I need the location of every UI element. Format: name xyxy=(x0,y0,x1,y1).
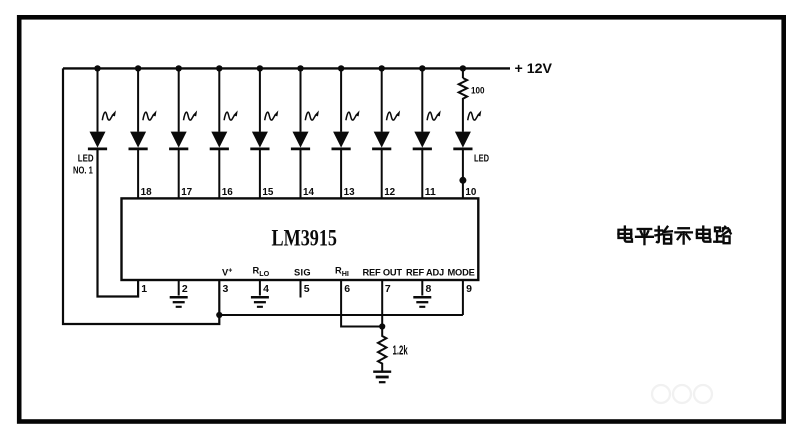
node rail junction 4 xyxy=(216,65,222,71)
ground (R2) xyxy=(373,372,391,383)
node rail junction 10 xyxy=(460,65,466,71)
wire xyxy=(340,149,342,198)
wire xyxy=(178,149,180,198)
wire xyxy=(300,149,302,198)
wire LED1 cathode to pin 1 xyxy=(98,149,139,297)
svg-text:2: 2 xyxy=(182,283,188,295)
svg-text:14: 14 xyxy=(303,186,314,198)
node pin3 junction xyxy=(216,312,222,318)
LED D9 light arrow xyxy=(427,110,441,120)
node rail junction 3 xyxy=(176,65,182,71)
watermark xyxy=(652,385,712,403)
svg-text:13: 13 xyxy=(344,186,355,198)
wire pin 2 stub xyxy=(178,281,180,296)
wire: pin3 to pin9 (MODE to V+) xyxy=(219,314,463,316)
svg-text:REF ADJ: REF ADJ xyxy=(406,268,444,278)
svg-text:LED: LED xyxy=(78,154,94,165)
wire: left vertical V+ loop xyxy=(63,68,219,324)
node pin10 junction xyxy=(459,177,466,184)
resistor R2 1.2k xyxy=(378,330,386,371)
wire: pin6 RHI loop xyxy=(341,281,382,327)
wire: pin7 REF OUT down xyxy=(381,281,383,330)
LED D7 light arrow xyxy=(346,110,360,120)
wire pin 5 stub xyxy=(300,281,302,298)
wire xyxy=(259,68,261,131)
LED D3 xyxy=(171,132,187,148)
wire xyxy=(178,68,180,131)
wire xyxy=(421,68,423,131)
LED D8 xyxy=(374,132,390,148)
LED D5 xyxy=(252,132,268,148)
svg-text:7: 7 xyxy=(385,283,391,295)
node rail junction 8 xyxy=(379,65,385,71)
LED D8 light arrow xyxy=(387,110,401,120)
ground (pin 4) xyxy=(251,297,269,307)
ground (pin 8) xyxy=(413,297,431,307)
svg-text:6: 6 xyxy=(344,283,350,295)
wire xyxy=(97,68,99,131)
wire xyxy=(137,68,139,131)
LED D1 xyxy=(90,132,106,148)
node rail junction 6 xyxy=(297,65,303,71)
svg-text:9: 9 xyxy=(466,283,472,295)
wire xyxy=(462,149,464,198)
node pin7 junction xyxy=(379,323,385,329)
node rail junction 5 xyxy=(257,65,263,71)
resistor R1 100 xyxy=(459,78,467,132)
svg-text:1.2k: 1.2k xyxy=(393,344,408,358)
LED D10 xyxy=(455,132,471,148)
svg-text:LM3915: LM3915 xyxy=(272,225,338,250)
LED D4 xyxy=(211,132,227,148)
svg-text:3: 3 xyxy=(223,283,229,295)
svg-text:12: 12 xyxy=(384,186,395,198)
IC U1 LM3915 box xyxy=(122,198,479,280)
wire xyxy=(340,68,342,131)
wire: pin9 stub xyxy=(462,281,464,315)
svg-text:RHI: RHI xyxy=(335,266,349,279)
LED D5 light arrow xyxy=(265,110,279,120)
LED D6 xyxy=(293,132,309,148)
LED D6 light arrow xyxy=(305,110,319,120)
wire xyxy=(421,149,423,198)
svg-text:15: 15 xyxy=(262,186,273,198)
svg-text:100: 100 xyxy=(471,86,485,97)
svg-text:LED: LED xyxy=(474,154,489,165)
svg-text:4: 4 xyxy=(263,283,269,295)
node rail junction 1 xyxy=(94,65,100,71)
svg-text:10: 10 xyxy=(465,186,476,198)
LED D4 light arrow xyxy=(224,110,238,120)
node rail junction 9 xyxy=(419,65,425,71)
LED D10 light arrow xyxy=(468,110,482,120)
svg-text:8: 8 xyxy=(426,283,432,295)
svg-text:16: 16 xyxy=(222,186,233,198)
svg-text:RLO: RLO xyxy=(253,266,270,279)
svg-text:+ 12V: + 12V xyxy=(515,60,553,76)
svg-text:SIG: SIG xyxy=(294,268,311,278)
wire xyxy=(218,68,220,131)
ground (pin 2) xyxy=(170,297,188,307)
wire xyxy=(381,68,383,131)
node rail junction 2 xyxy=(135,65,141,71)
wire pin 8 stub xyxy=(421,281,423,296)
svg-text:11: 11 xyxy=(425,186,436,198)
wire xyxy=(137,149,139,198)
wire xyxy=(462,68,464,78)
svg-text:NO. 1: NO. 1 xyxy=(73,166,93,177)
svg-text:5: 5 xyxy=(304,283,310,295)
LED D1 light arrow xyxy=(102,110,116,120)
node rail junction 7 xyxy=(338,65,344,71)
+12V supply rail xyxy=(63,67,510,69)
wire xyxy=(218,149,220,198)
wire pin 4 stub xyxy=(259,281,261,296)
LED D7 xyxy=(333,132,349,148)
wire xyxy=(300,68,302,131)
LED D2 xyxy=(130,132,146,148)
svg-text:18: 18 xyxy=(141,186,152,198)
LED D9 xyxy=(414,132,430,148)
LED D3 light arrow xyxy=(184,110,198,120)
svg-text:17: 17 xyxy=(181,186,192,198)
title 电平指示电路 xyxy=(618,227,631,242)
svg-text:MODE: MODE xyxy=(448,268,475,278)
LED D2 light arrow xyxy=(143,110,157,120)
wire xyxy=(259,149,261,198)
svg-text:REF OUT: REF OUT xyxy=(363,268,403,278)
svg-text:V+: V+ xyxy=(222,268,232,278)
pin function labels xyxy=(222,266,475,279)
wire xyxy=(381,149,383,198)
svg-text:1: 1 xyxy=(141,283,147,295)
